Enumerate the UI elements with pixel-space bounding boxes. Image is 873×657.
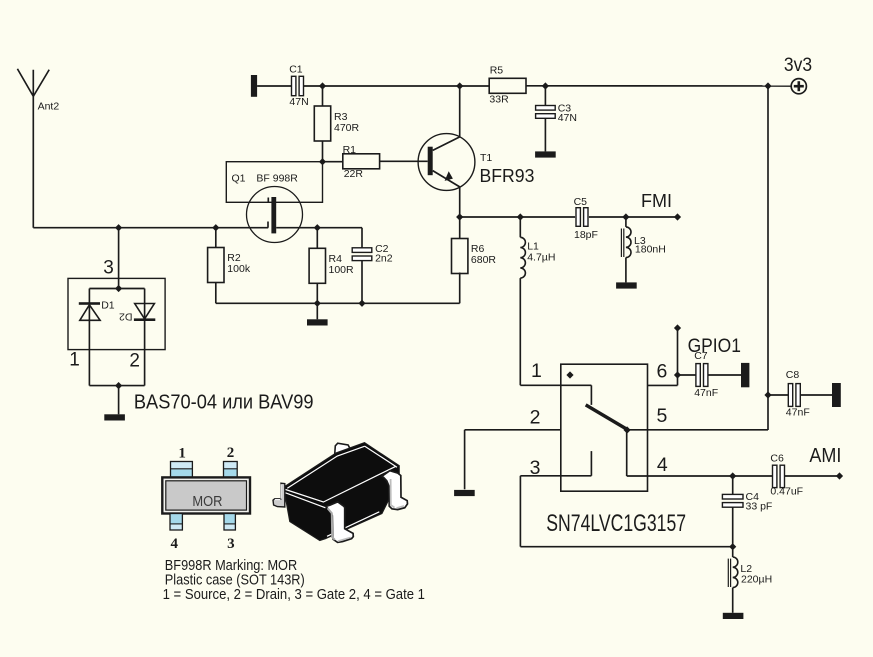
node junction bus/R2 [212, 224, 219, 231]
node junction 3v3 rail [764, 82, 771, 89]
wire ground stub R4 [316, 303, 318, 319]
wire T1 collector up [459, 86, 461, 137]
svg-text:SN74LVC1G3157: SN74LVC1G3157 [546, 509, 686, 537]
wire main bus antenna to Q1 gate [33, 227, 268, 229]
package pad number 4 [171, 536, 179, 552]
pin number 4 [657, 454, 668, 476]
IC inner pin1 contact [561, 385, 592, 405]
wire C2 top stub [361, 228, 363, 248]
node junction rail/C2 [358, 300, 365, 307]
wire C5 to FMI label [589, 216, 678, 218]
svg-text:C6: C6 [770, 453, 784, 465]
wire C7 to port [708, 374, 741, 376]
wire R1 to T1 base [380, 160, 428, 162]
svg-text:C1: C1 [289, 64, 303, 76]
svg-text:D1: D1 [101, 299, 115, 311]
svg-text:3: 3 [103, 258, 114, 279]
pin number 3 [530, 457, 541, 479]
wire C4 top stub [732, 476, 734, 494]
node junction GPIO1/C7 [674, 371, 681, 378]
wire C2 bottom stub [361, 261, 363, 304]
frame diode package box [68, 278, 165, 349]
wire L3 to ground [625, 258, 627, 283]
wire diode left branch [88, 289, 90, 386]
transistor Q1 BF998R dual-gate MOSFET [226, 162, 322, 243]
wire IC pin2 [465, 429, 561, 431]
ground under pin2 [454, 490, 475, 496]
wire L1 down to IC pin1 row [519, 278, 521, 385]
capacitor C1 [289, 64, 308, 109]
svg-text:2n2: 2n2 [375, 252, 393, 264]
svg-text:680R: 680R [471, 254, 497, 266]
net label FMI [641, 191, 681, 221]
svg-text:100k: 100k [227, 263, 251, 275]
svg-text:2: 2 [227, 445, 235, 461]
IC pin1 marker dot [566, 371, 573, 378]
supply symbol 3v3 [784, 54, 812, 94]
package pad number 3 [227, 536, 235, 552]
wire bottom rail [216, 302, 460, 304]
capacitor C7 [694, 350, 718, 399]
ground under C3 [535, 151, 556, 157]
svg-text:3v3: 3v3 [784, 54, 812, 76]
pin number 1 [531, 360, 542, 382]
node junction C1/R3 [319, 82, 326, 89]
node junction FMI/L1 [517, 213, 524, 220]
node junction emitter/R6/FMI [456, 213, 463, 220]
node junction rail/C8 [764, 391, 771, 398]
capacitor C2 [352, 243, 393, 264]
svg-text:C5: C5 [574, 196, 588, 208]
svg-text:2: 2 [530, 406, 541, 428]
wire junction to R1 [323, 161, 343, 163]
svg-text:Q1: Q1 [232, 173, 246, 185]
pad label 1 [69, 350, 80, 371]
diode D2 [119, 304, 155, 323]
wire to C7 [678, 374, 696, 376]
resistor R2 [208, 248, 251, 283]
svg-text:FMI: FMI [641, 191, 672, 211]
wire C3 top stub [544, 86, 546, 106]
wire R4 bottom stub [316, 283, 318, 303]
svg-text:4: 4 [171, 536, 179, 552]
node junction C4/L2 [729, 543, 736, 550]
svg-text:180nH: 180nH [635, 244, 666, 256]
svg-text:4: 4 [657, 454, 668, 476]
svg-text:5: 5 [657, 405, 668, 427]
wire IC pin1 [520, 384, 561, 386]
pin number 6 [657, 360, 668, 382]
svg-text:T1: T1 [480, 152, 492, 164]
label BAS70-04 or BAV99 [134, 391, 314, 414]
wire C8 to port [800, 394, 832, 396]
svg-text:R1: R1 [343, 144, 357, 156]
wire bus to diode box [118, 228, 120, 289]
svg-text:18pF: 18pF [574, 229, 598, 241]
diode D1 [79, 299, 115, 320]
label SN74LVC1G3157 [546, 509, 686, 537]
wire IC pin4 to C6 [648, 475, 773, 477]
wire 3v3 rail down right side [767, 86, 769, 430]
capacitor C3 [536, 103, 577, 124]
wire R3 top stub [322, 86, 324, 106]
wire port to C1 [257, 85, 292, 87]
svg-text:4.7µH: 4.7µH [527, 251, 555, 263]
wire L1 top stub [519, 217, 521, 237]
wire bus Q1 to R4/C2 [276, 227, 362, 229]
package pin 1 (top-left) [171, 462, 193, 478]
wire pin3 down [519, 476, 521, 547]
IC inner pin3 contact [561, 451, 592, 476]
port / terminal at C8 [832, 383, 841, 407]
svg-text:2: 2 [129, 350, 140, 371]
wire pin2 ground stub [464, 430, 466, 490]
wire R2 top stub [215, 228, 217, 248]
resistor R5 [489, 65, 526, 106]
port / terminal at C7 [741, 363, 749, 387]
wire C6 to AMI label [785, 475, 840, 477]
package pad number 2 [227, 445, 235, 461]
net label AMI [809, 445, 843, 479]
capacitor C8 [786, 369, 810, 418]
ground under R4 [307, 319, 328, 325]
ground under diode box [104, 414, 125, 420]
svg-text:1: 1 [531, 360, 542, 382]
package pin 2 (top-right) [224, 462, 238, 478]
wire C3 to ground [544, 118, 546, 151]
package pin 3 (bottom-right) [224, 514, 235, 531]
wire diode inner bottom [89, 385, 144, 387]
wire R4 top stub [316, 228, 318, 249]
ground under L3 [616, 282, 637, 288]
IC inner pin5 line [627, 429, 647, 431]
wire pin3 bottom run [520, 546, 732, 548]
wire diode to ground [118, 386, 120, 415]
wire R5 to 3v3 [526, 85, 791, 87]
svg-text:D2: D2 [119, 311, 133, 323]
resistor R3 [314, 106, 359, 141]
node junction bus/diode tap [115, 224, 122, 231]
pad label 2 [129, 350, 140, 371]
resistor R6 [452, 239, 497, 274]
wire L2 top stub [732, 547, 734, 557]
net label GPIO1 [674, 324, 741, 356]
node junction T1 collector / top rail [456, 82, 463, 89]
svg-text:1 = Source, 2 = Drain, 3 = Gat: 1 = Source, 2 = Drain, 3 = Gate 2, 4 = G… [163, 585, 426, 602]
svg-text:47nF: 47nF [786, 406, 810, 418]
wire T1 emitter down [459, 187, 461, 217]
package pad number 1 [178, 445, 186, 461]
wire IC pin3 left [520, 475, 560, 477]
svg-text:BF 998R: BF 998R [256, 173, 298, 185]
ground under L2 [723, 613, 744, 619]
wire R6 bottom stub [459, 273, 461, 304]
wire R3 bottom stub [322, 141, 324, 162]
package body MOR [162, 477, 250, 513]
svg-text:22R: 22R [344, 168, 364, 180]
svg-text:BFR93: BFR93 [480, 166, 535, 186]
inductor L3 [621, 227, 665, 258]
node junction bus/R4 [314, 224, 321, 231]
node junction R3/R1/Q1 [319, 158, 326, 165]
svg-text:C8: C8 [786, 369, 800, 381]
IC switch blade [586, 405, 631, 434]
package pin 4 (bottom-left) [170, 514, 182, 531]
port / terminal stub at C1 input [251, 75, 257, 97]
caption line 1 [165, 556, 297, 573]
wire L3 top stub [625, 217, 627, 227]
node junction diode common top [115, 285, 122, 292]
antenna Ant2 [17, 69, 59, 228]
pad label 3 [103, 258, 114, 279]
svg-text:MOR: MOR [192, 492, 222, 509]
svg-text:AMI: AMI [809, 445, 841, 467]
wire diode inner top [89, 288, 144, 290]
svg-text:1: 1 [69, 350, 80, 371]
caption line 2 [165, 571, 305, 588]
svg-text:3: 3 [227, 536, 235, 552]
svg-text:1: 1 [178, 445, 186, 461]
wire GPIO1 stub [677, 328, 679, 385]
wire C4 bottom stub [732, 507, 734, 547]
svg-text:BAS70-04 или BAV99: BAS70-04 или BAV99 [134, 391, 314, 414]
caption line 3 [163, 585, 426, 602]
wire L2 to ground [732, 588, 734, 613]
svg-text:33 pF: 33 pF [746, 501, 773, 513]
svg-text:33R: 33R [489, 94, 509, 106]
IC inner pin4 line [627, 430, 648, 476]
svg-text:R5: R5 [490, 65, 504, 77]
wire R6 top stub [459, 217, 461, 239]
resistor R4 [309, 248, 354, 283]
svg-text:0.47uF: 0.47uF [770, 486, 803, 498]
wire diode right branch [144, 289, 146, 386]
pin number 2 [530, 406, 541, 428]
inductor L1 [520, 237, 555, 278]
wire FMI bus left [460, 216, 575, 218]
node junction FMI/L3 [622, 213, 629, 220]
wire C1 to R5 (top rail left) [304, 85, 490, 87]
svg-text:470R: 470R [334, 122, 360, 134]
wire R2 bottom stub [215, 283, 217, 304]
node junction rail/R4-ground [314, 300, 321, 307]
node junction pin4/C4 [729, 472, 736, 479]
svg-text:47N: 47N [558, 112, 577, 124]
capacitor C6 [770, 453, 803, 498]
3D package picture SOT-143 [273, 443, 408, 543]
inductor L2 [728, 557, 772, 588]
IC U1 SN74LVC1G3157 box [561, 364, 648, 491]
capacitor C5 [574, 196, 598, 241]
svg-text:100R: 100R [329, 264, 355, 276]
svg-text:47N: 47N [289, 96, 308, 108]
transistor T1 BFR93 [418, 134, 534, 191]
resistor R1 [343, 144, 380, 180]
wire IC pin5 [648, 429, 769, 431]
wire IC pin6 [648, 384, 678, 386]
svg-text:Ant2: Ant2 [38, 101, 60, 113]
pin number 5 [657, 405, 668, 427]
node junction diode common bottom [115, 382, 122, 389]
svg-text:47nF: 47nF [694, 387, 718, 399]
wire rail to C8 [768, 394, 788, 396]
node junction R5/C3 [542, 82, 549, 89]
capacitor C4 [722, 491, 772, 513]
svg-text:6: 6 [657, 360, 668, 382]
svg-text:C7: C7 [694, 350, 708, 362]
svg-text:220µH: 220µH [741, 573, 772, 585]
